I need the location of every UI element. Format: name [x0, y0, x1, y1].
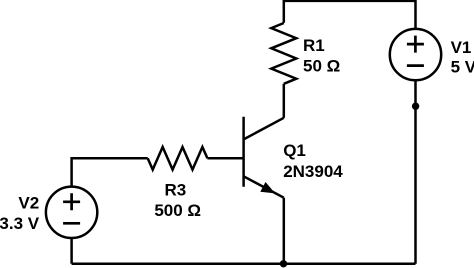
svg-text:3.3 V: 3.3 V	[0, 214, 40, 233]
junction dot bottom net at Q1 emitter	[280, 260, 287, 267]
transistor Q1	[244, 117, 284, 198]
junction dot below V1	[412, 103, 419, 110]
svg-text:2N3904: 2N3904	[283, 162, 343, 181]
svg-text:5 V: 5 V	[451, 58, 474, 77]
wire bottom net	[72, 262, 416, 265]
svg-text:V1: V1	[451, 38, 472, 57]
wire V1 bottom lead	[414, 80, 417, 263]
svg-text:V2: V2	[18, 194, 39, 213]
voltage source V2	[46, 187, 97, 238]
wire top net (R1 top to V1 top)	[284, 1, 416, 29]
svg-text:R1: R1	[303, 36, 325, 55]
voltage source V1	[390, 29, 441, 80]
svg-text:Q1: Q1	[283, 141, 306, 160]
svg-text:R3: R3	[165, 181, 187, 200]
wire R1 bottom to Q1 collector	[283, 84, 286, 118]
wire Q1 emitter to bottom net	[283, 198, 286, 264]
resistor R1	[271, 23, 296, 84]
svg-text:500 Ω: 500 Ω	[154, 201, 201, 220]
resistor R3	[148, 147, 208, 170]
svg-text:50 Ω: 50 Ω	[303, 57, 340, 76]
wire V2 top lead to R3	[72, 158, 148, 186]
wire R3 right to Q1 base	[207, 157, 243, 160]
wire V2 bottom lead	[70, 238, 73, 264]
